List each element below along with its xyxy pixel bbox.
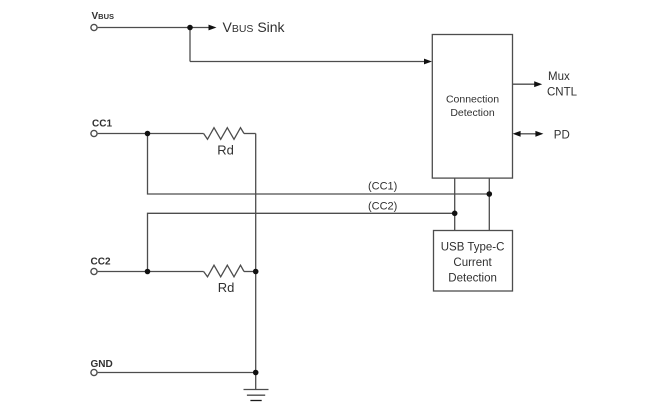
svg-text:Current: Current: [453, 257, 492, 269]
svg-text:Detection: Detection: [450, 107, 495, 119]
svg-text:GND: GND: [91, 359, 113, 370]
svg-text:VBUS: VBUS: [92, 11, 115, 22]
svg-text:(CC1): (CC1): [368, 180, 397, 192]
svg-text:CC2: CC2: [91, 257, 111, 268]
svg-text:PD: PD: [554, 130, 570, 142]
svg-text:Connection: Connection: [446, 94, 499, 106]
svg-text:USB Type-C: USB Type-C: [441, 241, 505, 253]
svg-text:Detection: Detection: [448, 273, 497, 285]
svg-text:Mux: Mux: [548, 71, 570, 83]
svg-text:Rd: Rd: [218, 280, 235, 295]
svg-text:CC1: CC1: [92, 119, 112, 130]
svg-text:CNTL: CNTL: [547, 86, 578, 98]
svg-text:Rd: Rd: [217, 142, 234, 157]
svg-text:(CC2): (CC2): [368, 201, 397, 213]
